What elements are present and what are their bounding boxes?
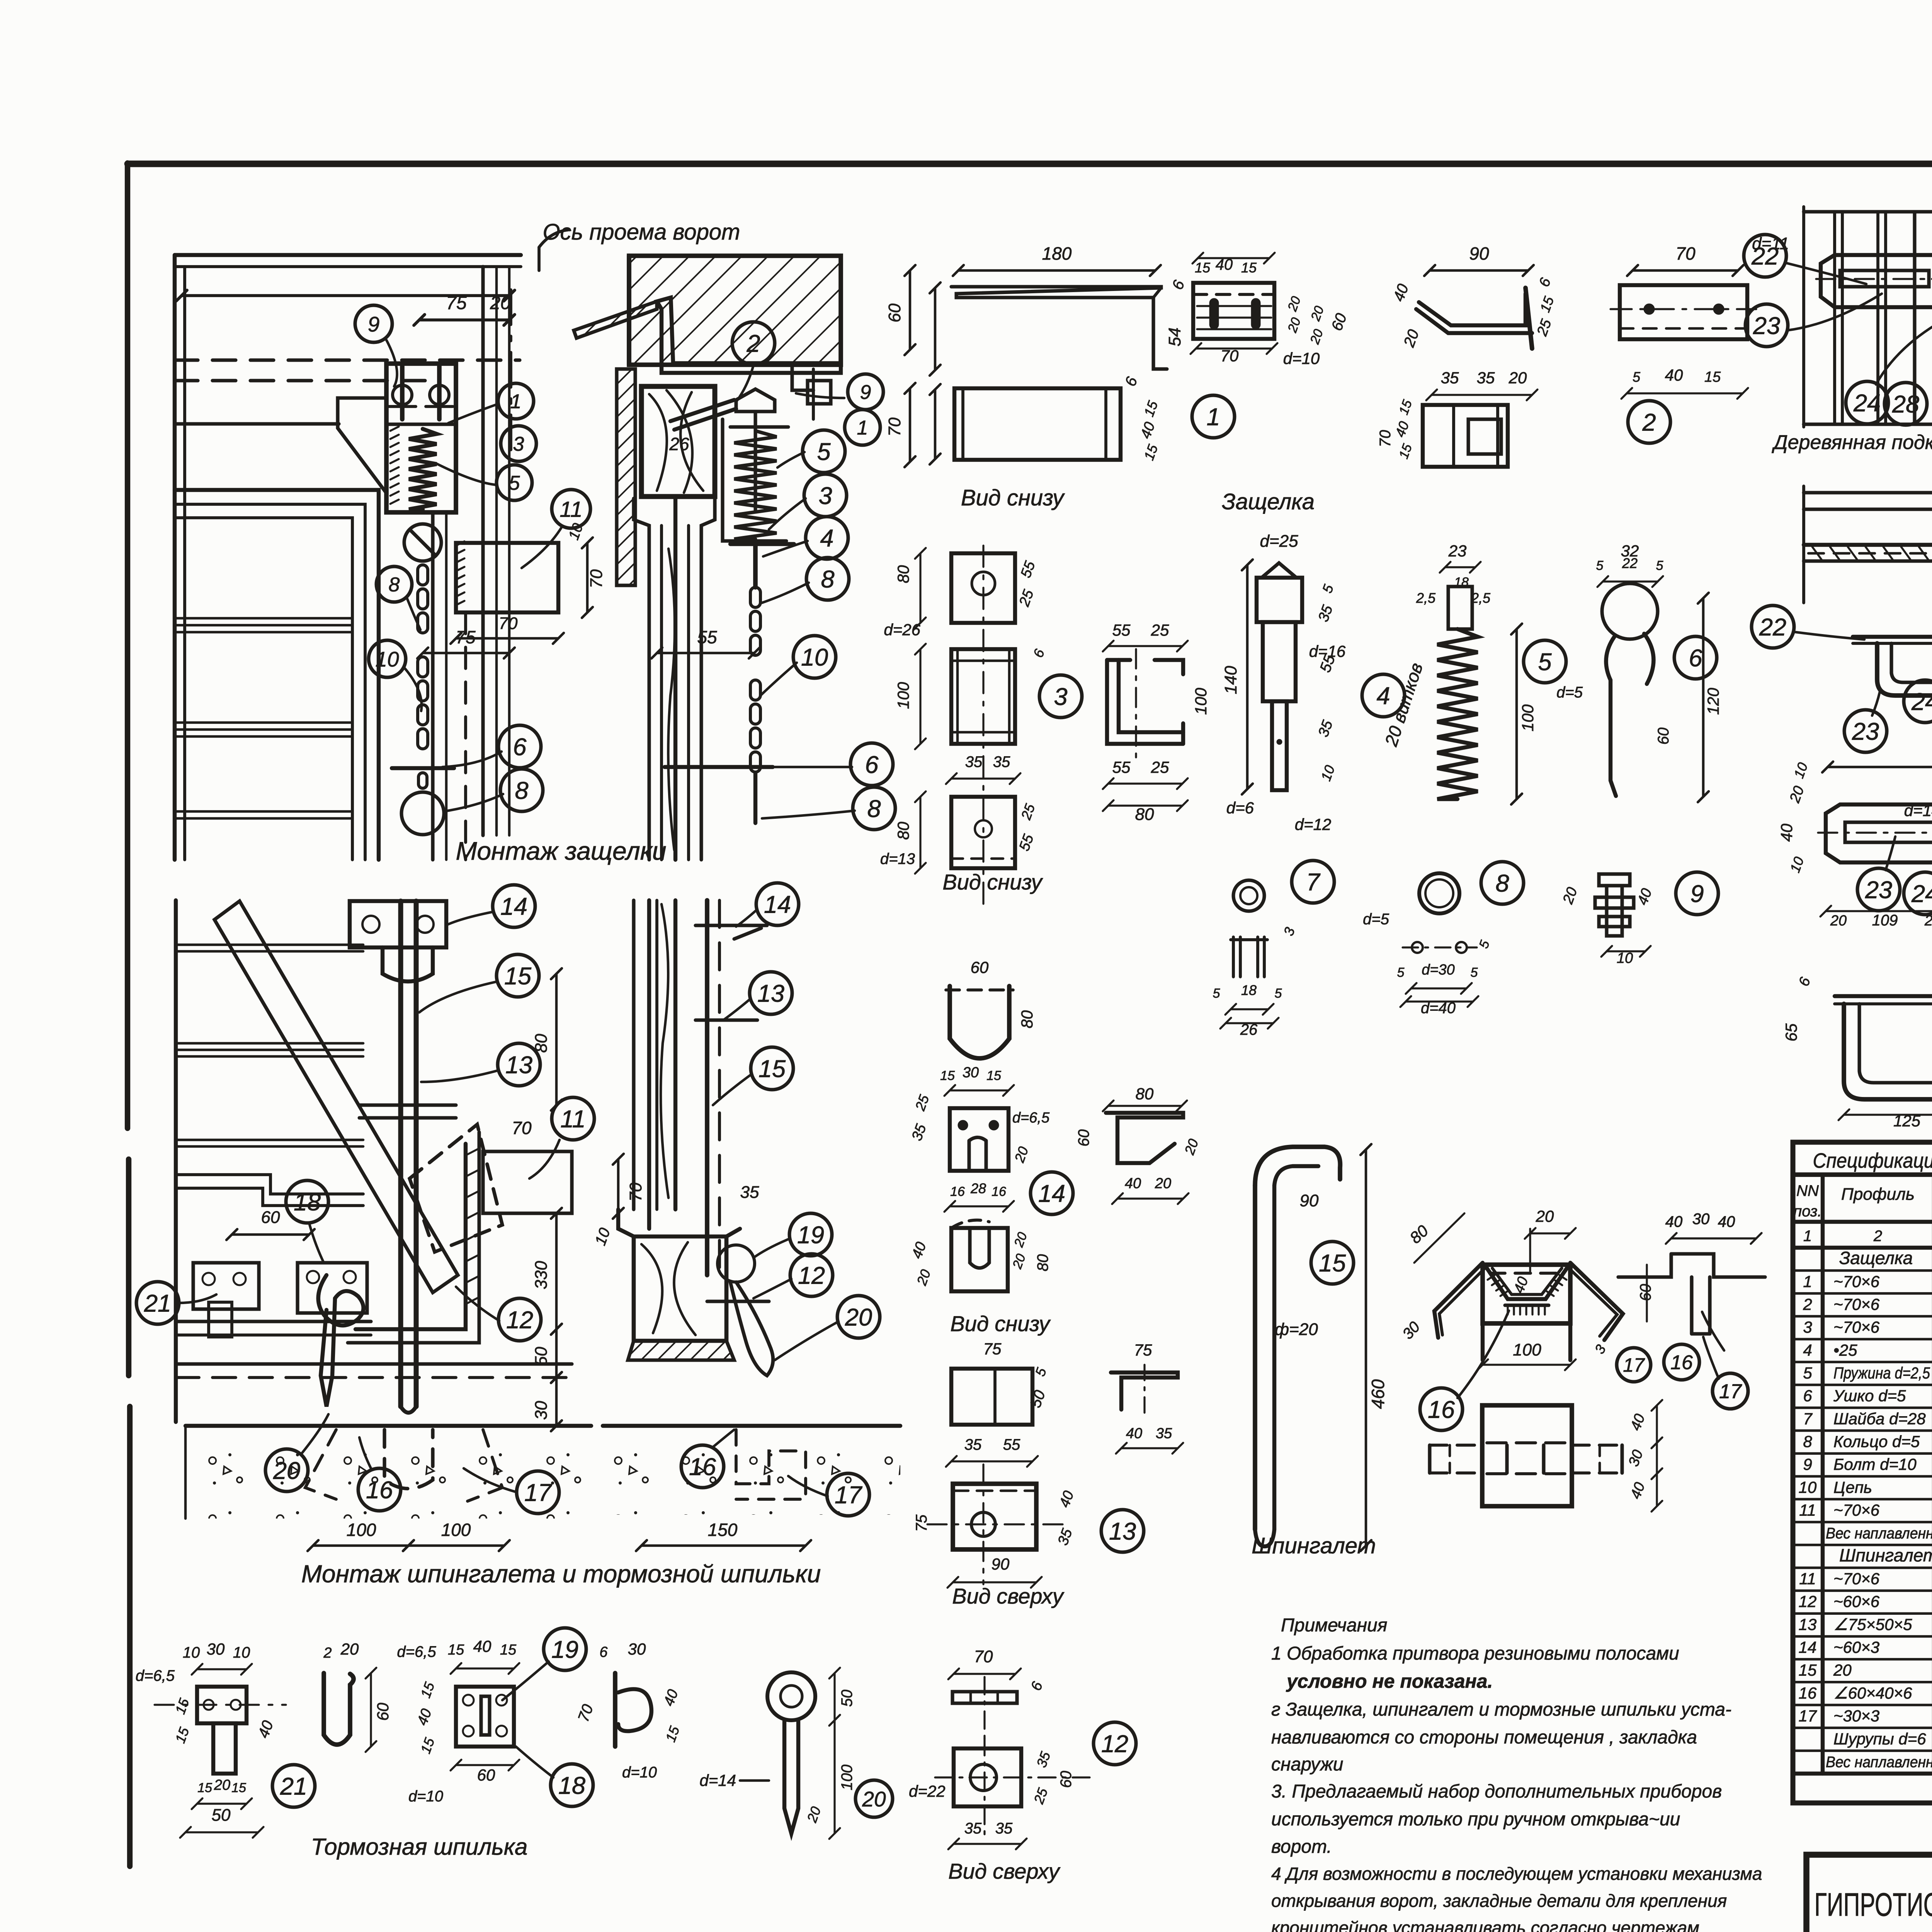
svg-text:2,5: 2,5 xyxy=(1471,590,1491,606)
svg-text:1: 1 xyxy=(510,391,522,413)
svg-text:40: 40 xyxy=(1665,1213,1683,1230)
hook latch at block (pos 19/12/20) xyxy=(718,1245,755,1282)
svg-text:40: 40 xyxy=(1777,823,1796,842)
right side dims for lower-left view xyxy=(555,974,558,1105)
dims pos 22 xyxy=(1828,766,1932,769)
svg-text:60: 60 xyxy=(1655,728,1672,745)
svg-text:26: 26 xyxy=(669,434,689,454)
pos 13 plate xyxy=(951,1369,1032,1425)
svg-text:15: 15 xyxy=(1319,1250,1346,1277)
gate leaf (lower view) planks xyxy=(174,900,178,1422)
svg-text:16: 16 xyxy=(366,1477,393,1504)
svg-text:60: 60 xyxy=(261,1208,280,1227)
part 1 L-bracket side view xyxy=(951,287,1167,369)
bottom band: Сталь марки Ст3 xyxy=(1793,1772,1932,1776)
ring 8 under housing xyxy=(404,524,441,561)
bottom dim 55 right section xyxy=(657,652,754,655)
table column verticals xyxy=(1821,1175,1825,1774)
spring (right section) xyxy=(730,425,788,429)
svg-text:8: 8 xyxy=(1495,870,1509,897)
svg-text:8: 8 xyxy=(1803,1432,1812,1451)
svg-text:80: 80 xyxy=(1135,805,1154,824)
svg-text:100: 100 xyxy=(1519,704,1537,731)
svg-text:d=10: d=10 xyxy=(1283,349,1320,367)
svg-text:17: 17 xyxy=(1623,1354,1645,1376)
slotted bar (pos 22/23) xyxy=(1821,255,1932,307)
callouts middle row xyxy=(1752,605,1794,648)
svg-text:снаружи: снаружи xyxy=(1271,1754,1343,1775)
svg-text:d=26: d=26 xyxy=(884,621,920,639)
latch fixing bolts xyxy=(400,366,405,419)
svg-text:Вид снизу: Вид снизу xyxy=(942,870,1043,894)
svg-text:9: 9 xyxy=(368,312,380,336)
svg-text:10: 10 xyxy=(183,1644,200,1661)
svg-text:28: 28 xyxy=(970,1180,986,1196)
svg-text:55: 55 xyxy=(1112,621,1131,639)
wall board hatched strip xyxy=(617,369,635,585)
pos 8 ring xyxy=(1419,873,1459,913)
svg-text:12: 12 xyxy=(1799,1592,1817,1611)
svg-text:20: 20 xyxy=(214,1777,230,1793)
svg-text:5: 5 xyxy=(1397,965,1405,980)
callout circles left section xyxy=(355,305,392,342)
svg-text:4: 4 xyxy=(820,525,833,552)
svg-text:d=5: d=5 xyxy=(1363,911,1389,928)
svg-text:1: 1 xyxy=(1206,404,1220,431)
svg-text:5: 5 xyxy=(1213,986,1220,1001)
svg-text:60: 60 xyxy=(971,958,989,976)
svg-text:60: 60 xyxy=(1075,1129,1092,1147)
svg-text:2: 2 xyxy=(1873,1228,1882,1245)
pan below (d=14) xyxy=(1844,1004,1932,1099)
part 2 hook side view xyxy=(1419,294,1526,325)
svg-text:180: 180 xyxy=(1042,243,1072,264)
svg-text:5: 5 xyxy=(1803,1364,1812,1382)
slotted plate (detail of pos 1) xyxy=(1193,283,1274,339)
specification table outer frame xyxy=(1793,1142,1932,1803)
svg-text:Защелка: Защелка xyxy=(1839,1248,1913,1268)
svg-text:5: 5 xyxy=(509,472,520,495)
svg-text:4: 4 xyxy=(1803,1341,1812,1359)
pos 4 stepped bolt xyxy=(1262,563,1296,578)
pins 13/14 sticking right xyxy=(696,923,767,927)
svg-text:15: 15 xyxy=(1704,369,1721,385)
svg-text:d=6,5: d=6,5 xyxy=(136,1667,175,1684)
svg-text:Примечания: Примечания xyxy=(1281,1615,1387,1636)
svg-text:9: 9 xyxy=(860,381,871,404)
svg-text:3: 3 xyxy=(513,433,524,456)
svg-text:2,5: 2,5 xyxy=(1416,590,1436,606)
svg-text:11: 11 xyxy=(560,1106,585,1133)
svg-text:Спецификация металла на при: Спецификация металла на приборы при откр… xyxy=(1813,1149,1932,1172)
pos 12 plate with hole xyxy=(954,1748,1021,1806)
pos 7 washer xyxy=(1233,880,1264,911)
svg-text:13: 13 xyxy=(505,1052,532,1079)
dim 60 above pin xyxy=(232,1233,309,1236)
bracket + bolt on right of wood block xyxy=(723,363,813,390)
svg-text:d=14: d=14 xyxy=(699,1771,736,1789)
svg-text:18: 18 xyxy=(1454,575,1469,590)
pos 16/17 top right T-part xyxy=(1618,1254,1765,1277)
svg-text:8: 8 xyxy=(821,566,834,593)
svg-text:23: 23 xyxy=(1865,877,1892,904)
right wing xyxy=(1570,1263,1623,1340)
svg-text:54: 54 xyxy=(1165,328,1184,347)
diagonal brace xyxy=(214,901,458,1293)
right jamb verticals of left section xyxy=(431,512,434,860)
svg-text:8: 8 xyxy=(389,574,400,596)
title block frame xyxy=(1806,1855,1932,1932)
svg-text:10: 10 xyxy=(375,647,399,671)
svg-text:Пружина d=2,5: Пружина d=2,5 xyxy=(1833,1364,1930,1382)
svg-text:~70×6: ~70×6 xyxy=(1833,1501,1880,1519)
svg-text:20: 20 xyxy=(1155,1175,1171,1192)
panel horizontal plank lines xyxy=(175,617,352,620)
svg-text:100: 100 xyxy=(1513,1340,1541,1359)
svg-text:100: 100 xyxy=(347,1520,376,1540)
svg-text:10: 10 xyxy=(233,1644,250,1661)
dims right of right section xyxy=(909,270,912,350)
svg-text:d=14: d=14 xyxy=(1904,801,1932,820)
svg-text:16: 16 xyxy=(689,1454,716,1481)
svg-text:20: 20 xyxy=(1833,1661,1852,1679)
bottom rail of gate xyxy=(176,1320,371,1323)
svg-text:Шпингалет: Шпингалет xyxy=(1839,1545,1932,1565)
svg-text:20: 20 xyxy=(845,1304,872,1331)
svg-text:15: 15 xyxy=(1241,260,1257,276)
svg-text:35: 35 xyxy=(995,1820,1013,1837)
svg-text:•25: •25 xyxy=(1833,1341,1857,1359)
svg-text:∠60×40×6: ∠60×40×6 xyxy=(1833,1684,1912,1702)
page border frame left xyxy=(125,163,130,1128)
svg-text:60: 60 xyxy=(1637,1284,1654,1301)
U-part rounded xyxy=(950,986,1009,1058)
svg-text:~30×3: ~30×3 xyxy=(1833,1707,1879,1725)
svg-text:23: 23 xyxy=(1852,718,1879,745)
latch rod with chain below xyxy=(753,544,758,587)
svg-text:4: 4 xyxy=(1376,683,1390,710)
table header row xyxy=(1793,1172,1932,1177)
pos 22 long bar with slot xyxy=(1826,804,1932,862)
svg-text:70: 70 xyxy=(974,1647,993,1666)
svg-text:22: 22 xyxy=(1622,555,1638,571)
svg-text:6: 6 xyxy=(1689,645,1702,672)
pos 16/17 lower rectangle with dashes xyxy=(1482,1405,1572,1506)
latch housing with spring (left section) xyxy=(386,364,456,512)
svg-text:Деревянная подкладка 25×70×10: Деревянная подкладка 25×70×100 xyxy=(1772,431,1932,454)
svg-text:11: 11 xyxy=(560,497,582,522)
svg-text:d=12: d=12 xyxy=(1295,815,1332,833)
svg-text:55: 55 xyxy=(697,627,717,647)
svg-text:75: 75 xyxy=(446,293,467,313)
svg-text:50: 50 xyxy=(532,1347,551,1366)
table left-half rows xyxy=(1793,1269,1932,1272)
svg-text:Ось проема ворот: Ось проема ворот xyxy=(543,219,740,245)
svg-text:ф=20: ф=20 xyxy=(1275,1320,1318,1339)
svg-text:17: 17 xyxy=(524,1480,552,1507)
svg-text:20: 20 xyxy=(1536,1207,1554,1225)
svg-text:80: 80 xyxy=(1034,1254,1051,1272)
chain lower part + eyelet xyxy=(418,657,428,677)
svg-text:3: 3 xyxy=(1054,684,1067,711)
pos 3 plates column xyxy=(951,553,1015,623)
svg-text:10: 10 xyxy=(1799,1478,1817,1496)
wood block bottom (hatched) xyxy=(618,1209,740,1341)
svg-text:открывания ворот, закладные: открывания ворот, закладные детали для к… xyxy=(1271,1891,1727,1911)
svg-text:20: 20 xyxy=(1830,913,1847,929)
svg-text:14: 14 xyxy=(1799,1638,1817,1656)
svg-text:17: 17 xyxy=(1799,1707,1817,1725)
svg-text:22: 22 xyxy=(1751,243,1779,270)
svg-text:15: 15 xyxy=(500,1642,517,1658)
svg-text:Монтаж шпингалета и тормо: Монтаж шпингалета и тормозной шпильки xyxy=(301,1560,821,1588)
ground hatch (concrete) left view xyxy=(185,1424,591,1428)
svg-text:70: 70 xyxy=(885,417,904,436)
svg-text:3. Предлагаемый набор допол: 3. Предлагаемый набор дополнительных при… xyxy=(1271,1781,1722,1802)
angled latch plate (pos 12) xyxy=(410,1124,502,1252)
svg-text:75: 75 xyxy=(456,627,476,647)
svg-text:~60×3: ~60×3 xyxy=(1833,1638,1879,1656)
svg-text:15: 15 xyxy=(1195,260,1211,276)
svg-text:условно не показана.: условно не показана. xyxy=(1286,1670,1493,1692)
dashed socket in ground xyxy=(305,1430,502,1501)
svg-text:120: 120 xyxy=(1704,687,1722,715)
part 1 bottom view rectangle xyxy=(954,388,1121,460)
pos 15 long rod xyxy=(1255,1147,1340,1185)
svg-text:16: 16 xyxy=(1428,1396,1455,1423)
svg-text:70: 70 xyxy=(512,1118,532,1138)
svg-text:Вид сверху: Вид сверху xyxy=(952,1584,1064,1608)
svg-text:25: 25 xyxy=(1151,758,1169,776)
svg-text:9: 9 xyxy=(1690,881,1704,908)
svg-text:10: 10 xyxy=(1617,950,1633,966)
svg-text:12: 12 xyxy=(1101,1731,1128,1758)
svg-text:6: 6 xyxy=(865,752,879,779)
hatched keeper block (pos 11) xyxy=(456,543,558,612)
svg-text:15: 15 xyxy=(504,963,532,990)
weld serration marks near pocket xyxy=(466,1148,479,1155)
left horizontal rails xyxy=(1802,486,1805,603)
svg-text:12: 12 xyxy=(506,1307,533,1334)
pos 6 eye hook xyxy=(1602,583,1658,639)
svg-text:25: 25 xyxy=(1151,621,1169,639)
pos 16/17 bent strap drawing xyxy=(1483,1265,1570,1323)
svg-text:ГИПРОТИС: ГИПРОТИС xyxy=(1815,1886,1932,1923)
dashed pocket right xyxy=(736,1430,806,1499)
svg-text:21: 21 xyxy=(144,1290,171,1317)
svg-text:55: 55 xyxy=(1003,1436,1020,1453)
svg-text:Профиль: Профиль xyxy=(1841,1185,1915,1204)
svg-text:1: 1 xyxy=(1803,1228,1812,1245)
svg-text:поз.: поз. xyxy=(1793,1203,1822,1220)
part 2 bottom view xyxy=(1423,405,1508,467)
svg-text:30: 30 xyxy=(532,1401,551,1420)
jamb wood post below (right section) xyxy=(634,498,649,860)
svg-text:40: 40 xyxy=(473,1637,492,1655)
svg-text:20: 20 xyxy=(862,1787,886,1811)
svg-text:22: 22 xyxy=(1759,614,1786,641)
wood block 26 with grain xyxy=(641,386,715,497)
vertical rod lower right section xyxy=(705,900,709,1275)
pos 22 side view row xyxy=(1835,994,1932,998)
svg-text:3: 3 xyxy=(1803,1318,1812,1336)
svg-text:100: 100 xyxy=(894,682,912,709)
svg-text:19: 19 xyxy=(551,1636,578,1663)
svg-text:Вид снизу: Вид снизу xyxy=(950,1311,1051,1336)
svg-text:2: 2 xyxy=(1803,1295,1812,1313)
svg-text:20: 20 xyxy=(273,1458,300,1485)
serrated weld edge xyxy=(390,427,399,431)
pos 9 bolt small xyxy=(1599,874,1630,886)
svg-text:23: 23 xyxy=(1753,313,1780,340)
svg-text:~70×6: ~70×6 xyxy=(1833,1295,1880,1313)
svg-text:20: 20 xyxy=(340,1640,359,1658)
angle flashing on lintel xyxy=(574,301,657,338)
svg-text:d=30: d=30 xyxy=(1422,962,1455,978)
left wing xyxy=(1434,1263,1483,1338)
svg-text:d=10: d=10 xyxy=(408,1788,443,1805)
svg-text:d=22: d=22 xyxy=(909,1782,946,1800)
svg-text:~70×6: ~70×6 xyxy=(1833,1272,1880,1291)
svg-text:70: 70 xyxy=(626,1182,645,1201)
svg-text:15: 15 xyxy=(448,1642,464,1658)
svg-text:50: 50 xyxy=(212,1806,231,1825)
svg-text:~70×6: ~70×6 xyxy=(1833,1318,1880,1336)
svg-text:50: 50 xyxy=(838,1690,855,1707)
svg-text:13: 13 xyxy=(1109,1518,1136,1545)
svg-text:15: 15 xyxy=(986,1068,1001,1083)
vertical bolt rod (shpingalet) xyxy=(398,901,403,1406)
svg-text:13: 13 xyxy=(757,980,784,1007)
leader lines xyxy=(386,340,397,386)
svg-text:ворот.: ворот. xyxy=(1271,1837,1332,1857)
svg-text:16: 16 xyxy=(950,1184,965,1199)
svg-text:80: 80 xyxy=(1136,1085,1154,1103)
svg-text:6: 6 xyxy=(599,1644,608,1660)
svg-text:35: 35 xyxy=(1156,1425,1172,1442)
svg-text:Защелка: Защелка xyxy=(1222,489,1315,514)
pos 14 plate with slot xyxy=(950,1108,1009,1171)
bottom dim 75 (left section) xyxy=(423,652,509,655)
bottom dims 100 100 xyxy=(313,1544,408,1547)
svg-text:90: 90 xyxy=(1300,1191,1319,1210)
svg-text:5: 5 xyxy=(1471,965,1478,980)
svg-text:100: 100 xyxy=(441,1520,471,1540)
svg-text:15: 15 xyxy=(1799,1661,1817,1679)
svg-text:5: 5 xyxy=(1656,558,1663,573)
svg-text:d=10: d=10 xyxy=(622,1764,657,1781)
svg-text:14: 14 xyxy=(500,893,527,920)
svg-text:9: 9 xyxy=(1803,1455,1812,1473)
door panel frame left xyxy=(175,490,379,860)
svg-text:150: 150 xyxy=(708,1520,738,1540)
pan (pos 23) xyxy=(1877,643,1932,696)
svg-text:11: 11 xyxy=(1799,1570,1816,1588)
rod guide plate top (pos 14) xyxy=(350,901,446,947)
svg-text:13: 13 xyxy=(1799,1615,1817,1633)
svg-text:14: 14 xyxy=(1038,1180,1065,1207)
svg-text:35: 35 xyxy=(993,753,1010,770)
svg-text:60: 60 xyxy=(374,1702,392,1721)
svg-text:~70×6: ~70×6 xyxy=(1833,1570,1880,1588)
svg-text:35: 35 xyxy=(1441,369,1459,387)
pos 14 angle view xyxy=(1106,1113,1183,1163)
svg-text:Болт d=10: Болт d=10 xyxy=(1833,1455,1917,1473)
svg-text:2: 2 xyxy=(1642,409,1656,436)
svg-text:30: 30 xyxy=(963,1065,979,1081)
gate leaf section (left view) top band xyxy=(175,253,521,257)
svg-text:15: 15 xyxy=(940,1068,955,1083)
svg-text:d=13: d=13 xyxy=(880,850,915,867)
svg-text:24: 24 xyxy=(1853,390,1881,417)
svg-text:18: 18 xyxy=(294,1189,321,1216)
pos 16/17 top right T-part xyxy=(1618,1254,1765,1277)
svg-text:Цепь: Цепь xyxy=(1833,1478,1872,1496)
svg-text:15: 15 xyxy=(759,1056,786,1083)
chain from ring xyxy=(418,565,428,585)
svg-text:30: 30 xyxy=(628,1640,646,1658)
brake pin assembly (pos 18/21) xyxy=(193,1263,259,1309)
U hook part xyxy=(324,1673,354,1745)
svg-text:г Защелка, шпингалет и торм: г Защелка, шпингалет и тормозные шпильки… xyxy=(1271,1699,1731,1720)
axis line: Ось проема ворот xyxy=(509,290,512,460)
svg-text:18: 18 xyxy=(1241,982,1257,998)
svg-text:Вес наплавленного металла 2%: Вес наплавленного металла 2% xyxy=(1826,1753,1932,1770)
svg-text:12: 12 xyxy=(798,1262,825,1289)
svg-text:35: 35 xyxy=(740,1183,759,1202)
svg-text:Кольцо d=5: Кольцо d=5 xyxy=(1833,1432,1920,1451)
svg-text:24: 24 xyxy=(1911,881,1932,908)
pos 13 lower plate with hole xyxy=(953,1484,1036,1549)
svg-text:NN: NN xyxy=(1796,1182,1819,1199)
svg-text:330: 330 xyxy=(532,1261,551,1289)
svg-text:65: 65 xyxy=(1782,1023,1800,1041)
svg-text:5: 5 xyxy=(1596,558,1604,573)
svg-text:21: 21 xyxy=(280,1773,307,1800)
svg-text:60: 60 xyxy=(1058,1771,1075,1788)
part 20: eye pin xyxy=(767,1672,815,1720)
lintel hatched masonry (right section) xyxy=(629,256,841,365)
svg-text:23: 23 xyxy=(1448,542,1467,560)
svg-text:55: 55 xyxy=(1112,758,1131,776)
pos 13 angle xyxy=(1111,1372,1178,1410)
svg-text:100: 100 xyxy=(1192,687,1210,715)
svg-text:24: 24 xyxy=(1911,689,1932,716)
svg-text:2: 2 xyxy=(746,330,760,357)
svg-text:70: 70 xyxy=(1377,430,1394,447)
svg-text:28: 28 xyxy=(1892,391,1919,418)
svg-text:17: 17 xyxy=(1719,1381,1742,1403)
bracket plate left of housing xyxy=(338,398,386,493)
svg-text:Ушко d=5: Ушко d=5 xyxy=(1833,1387,1906,1405)
svg-text:35: 35 xyxy=(965,753,983,770)
svg-text:100: 100 xyxy=(838,1765,855,1791)
svg-text:8: 8 xyxy=(515,777,528,804)
pos 14 lower: plate with U cut xyxy=(951,1228,1008,1291)
svg-text:460: 460 xyxy=(1368,1379,1388,1409)
svg-text:1: 1 xyxy=(857,417,868,439)
svg-text:5: 5 xyxy=(1538,649,1552,676)
svg-text:3: 3 xyxy=(818,483,832,510)
svg-text:Вес наплавленного металла 2%: Вес наплавленного металла 2% xyxy=(1826,1525,1932,1542)
svg-text:10: 10 xyxy=(801,644,828,671)
svg-text:5: 5 xyxy=(817,439,831,466)
svg-text:1: 1 xyxy=(1803,1272,1812,1291)
svg-text:Шайба d=28: Шайба d=28 xyxy=(1833,1410,1926,1428)
gate left stile xyxy=(173,255,177,860)
svg-text:80: 80 xyxy=(894,565,912,583)
svg-text:70: 70 xyxy=(1675,243,1696,264)
